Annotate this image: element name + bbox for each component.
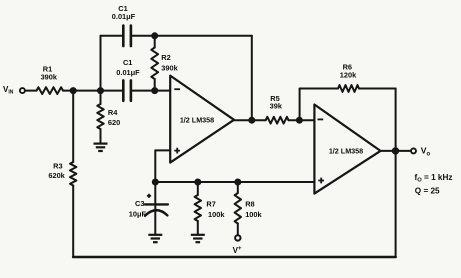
svg-text:0.01μF: 0.01μF <box>116 68 140 77</box>
svg-text:100k: 100k <box>208 210 225 219</box>
svg-text:100k: 100k <box>245 210 262 219</box>
svg-text:10μF: 10μF <box>129 210 147 219</box>
svg-text:390k: 390k <box>41 73 58 82</box>
svg-text:0.01μF: 0.01μF <box>112 12 136 21</box>
svg-text:R8: R8 <box>245 200 254 209</box>
svg-text:1/2 LM358: 1/2 LM358 <box>180 116 214 125</box>
svg-text:390k: 390k <box>161 64 178 73</box>
svg-text:R2: R2 <box>161 53 170 62</box>
svg-text:Q = 25: Q = 25 <box>415 187 440 196</box>
svg-text:39k: 39k <box>270 102 283 111</box>
svg-text:R3: R3 <box>53 161 62 170</box>
svg-text:1/2 LM358: 1/2 LM358 <box>329 147 363 156</box>
svg-text:R4: R4 <box>108 108 118 117</box>
svg-text:620k: 620k <box>48 171 65 180</box>
svg-text:120k: 120k <box>340 70 357 79</box>
svg-text:620: 620 <box>108 118 120 127</box>
svg-text:C1: C1 <box>123 58 132 67</box>
svg-text:R7: R7 <box>206 200 215 209</box>
svg-text:C3: C3 <box>135 199 144 208</box>
